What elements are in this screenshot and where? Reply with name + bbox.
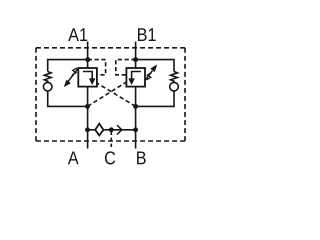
valve V2 internal flow path arrow [132,72,141,80]
enclosure right edge [184,48,186,141]
wire valve V1 to port A [87,87,89,149]
wire port B1 to valve V2 [135,42,137,68]
valve V2 adjustment arrow [145,71,152,80]
wire filter to B line [103,129,135,131]
junction node A/pilot link [85,127,90,132]
port A1 label [68,28,87,41]
pilot line V1 (dashed, from A1 node to V1 pilot port) [88,60,106,75]
port A label [68,151,79,164]
valve V1 adjustment arrow [68,68,78,81]
pilot line V2 to A line (dashed diagonal) [88,82,127,106]
filter F1 [95,124,103,136]
check valve CV2 spring [171,72,178,83]
check valve CV2 ball [170,82,179,91]
check valve CV1 ball [43,82,52,91]
wire check-valve CV1 loop bottom [48,91,88,107]
junction node B/pilot link [133,127,138,132]
valve V1 internal flow path arrow [83,72,92,80]
pilot line V1 to B line (dashed diagonal) [97,83,136,106]
enclosure left edge [35,48,37,141]
junction node A1/CV1 [85,57,90,62]
counterbalance valve V2 body [126,68,145,87]
wire port A1 to valve V1 [87,42,89,68]
wire bottom pilot link A to filter [88,129,96,131]
enclosure (dashed manifold boundary) top edge [36,47,185,49]
enclosure bottom edge [36,140,185,142]
valve V1 adjustable spring [72,68,77,75]
pilot drain to port C (dashed) [110,132,112,148]
counterbalance valve V1 body [78,68,97,87]
wire valve V2 to port B [135,87,137,149]
check valve CV1 spring [44,72,51,83]
wire check-valve CV2 loop bottom [136,91,174,107]
flow direction arrow toward B [117,125,122,134]
pilot line V2 (dashed, from B1 node to V2 pilot port) [116,60,136,75]
valve V2 adjustable spring [147,73,152,80]
junction node A/CV1 bottom [85,104,90,109]
junction node C branch [109,127,114,132]
port B label [137,151,146,164]
wire check-valve CV1 loop top [48,60,88,72]
junction node B1/CV2 [133,57,138,62]
junction node B/CV2 bottom [133,104,138,109]
port B1 label [138,28,156,41]
port C label [105,151,115,164]
wire check-valve CV2 loop top [136,60,174,72]
